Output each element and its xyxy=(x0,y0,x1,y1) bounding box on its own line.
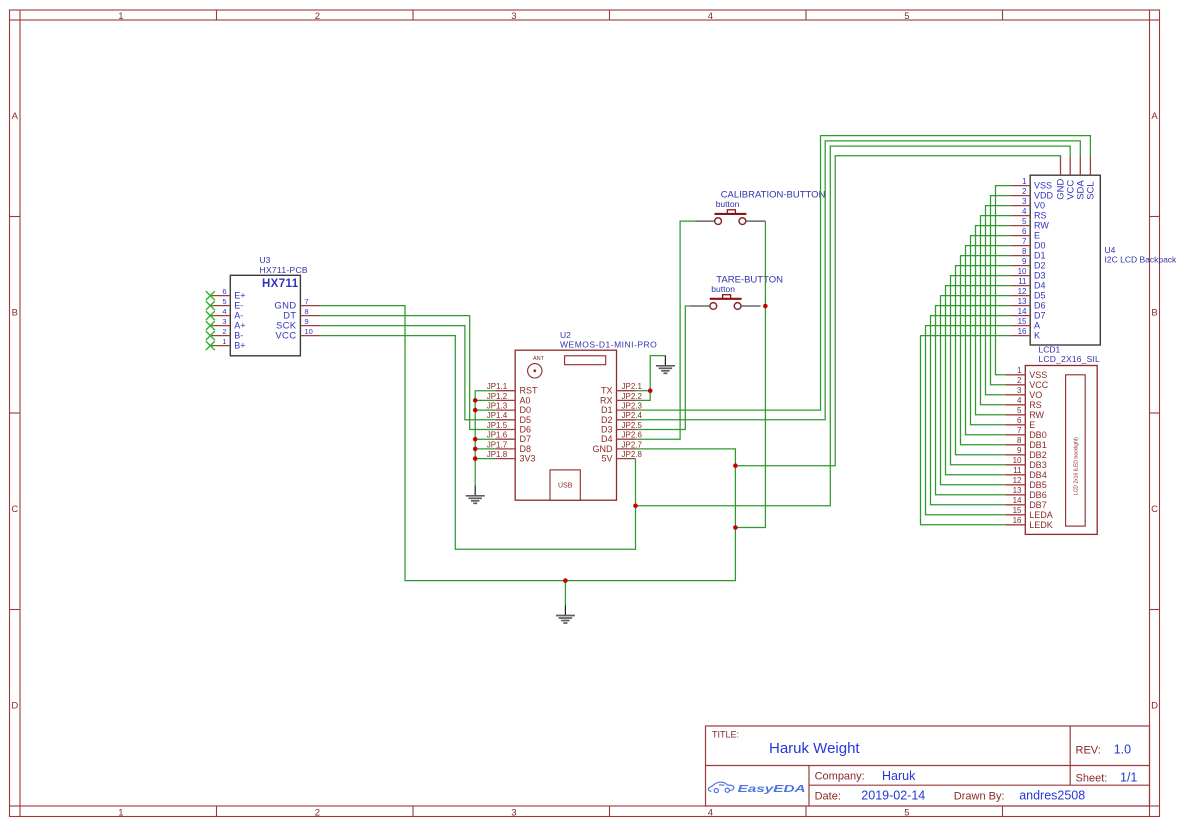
svg-text:RX: RX xyxy=(600,395,613,405)
svg-text:WEMOS-D1-MINI-PRO: WEMOS-D1-MINI-PRO xyxy=(560,340,657,350)
U4 pin 5 RW xyxy=(1010,217,1049,231)
svg-text:DB6: DB6 xyxy=(1029,490,1047,500)
junction dots on RST chain xyxy=(473,398,478,461)
svg-text:D0: D0 xyxy=(520,405,532,415)
svg-text:VO: VO xyxy=(1029,390,1042,400)
svg-text:D3: D3 xyxy=(601,425,613,435)
LCD1 pin 15 LEDA xyxy=(1005,506,1052,520)
svg-text:RW: RW xyxy=(1034,221,1049,231)
svg-text:D6: D6 xyxy=(520,425,532,435)
svg-text:6: 6 xyxy=(222,287,226,296)
svg-text:D0: D0 xyxy=(1034,241,1046,251)
svg-text:DB0: DB0 xyxy=(1029,430,1047,440)
svg-text:C: C xyxy=(11,504,18,515)
U4 pin 11 D4 xyxy=(1010,277,1045,291)
svg-text:andres2508: andres2508 xyxy=(1019,789,1085,803)
svg-text:LCD 2x16 (LED backlight): LCD 2x16 (LED backlight) xyxy=(1074,437,1080,495)
svg-text:JP1.4: JP1.4 xyxy=(487,411,508,420)
U4 pin 1 VSS xyxy=(1010,177,1052,191)
svg-text:DB1: DB1 xyxy=(1029,440,1047,450)
svg-text:HX711: HX711 xyxy=(262,278,299,290)
module U2 WEMOS-D1-MINI-PRO body xyxy=(515,350,616,500)
border ruler row letters right xyxy=(1151,111,1158,712)
svg-text:D5: D5 xyxy=(1034,291,1046,301)
svg-text:15: 15 xyxy=(1013,506,1022,515)
svg-text:1: 1 xyxy=(118,11,123,22)
no-connect flag on U3 pin 5 xyxy=(206,301,215,310)
svg-text:3: 3 xyxy=(1022,197,1027,206)
svg-text:9: 9 xyxy=(1022,257,1027,266)
LCD1 screen outline rectangle xyxy=(1066,375,1086,526)
LCD1 pin 2 VCC xyxy=(1005,376,1048,390)
easyeda logo xyxy=(708,782,805,795)
LCD1 pin 8 DB1 xyxy=(1005,436,1046,450)
svg-text:JP2.3: JP2.3 xyxy=(622,402,643,411)
U3 pin 7 GND xyxy=(274,297,320,312)
U4 pin 12 D5 xyxy=(1010,287,1045,301)
svg-text:JP1.7: JP1.7 xyxy=(487,440,508,449)
junction dot GND/buttons branch xyxy=(733,525,738,530)
svg-text:D4: D4 xyxy=(1034,281,1046,291)
LCD1 pin 11 DB4 xyxy=(1005,466,1046,480)
svg-text:USB: USB xyxy=(558,483,573,490)
svg-text:DB3: DB3 xyxy=(1029,460,1047,470)
U2 right pin JP2.6 D4 xyxy=(601,431,643,445)
svg-text:VDD: VDD xyxy=(1034,191,1054,201)
wire 3V3 to chain xyxy=(475,458,495,460)
svg-text:7: 7 xyxy=(1022,237,1027,246)
svg-text:10: 10 xyxy=(305,327,313,336)
U4 pin 6 E xyxy=(1010,227,1040,241)
svg-text:button: button xyxy=(716,199,740,209)
U2 left pin JP1.4 D5 xyxy=(487,411,531,425)
svg-text:12: 12 xyxy=(1013,476,1022,485)
U4 pin 13 D6 xyxy=(1010,297,1045,311)
IC U4 I2C LCD Backpack body xyxy=(1030,175,1100,345)
svg-text:A-: A- xyxy=(234,311,243,321)
svg-text:13: 13 xyxy=(1018,297,1027,306)
svg-text:A0: A0 xyxy=(520,395,531,405)
no-connect flag on U3 pin 2 xyxy=(206,331,215,340)
svg-text:14: 14 xyxy=(1018,307,1027,316)
svg-text:4: 4 xyxy=(222,307,226,316)
wire TX node to RX xyxy=(636,391,651,401)
U4 pin 14 D7 xyxy=(1010,307,1045,321)
svg-text:1: 1 xyxy=(222,337,226,346)
svg-text:3: 3 xyxy=(222,317,226,326)
svg-text:DB2: DB2 xyxy=(1029,450,1047,460)
U2 left pin JP1.3 D0 xyxy=(487,402,531,416)
U4 top pin VCC xyxy=(1065,156,1076,199)
wire TX node up to ground symbol xyxy=(650,356,665,391)
U2 right pin JP2.3 D1 xyxy=(601,402,643,416)
svg-text:LEDK: LEDK xyxy=(1029,520,1053,530)
svg-text:LCD_2X16_SIL: LCD_2X16_SIL xyxy=(1039,354,1101,364)
wire A0 to chain xyxy=(475,399,495,401)
U2 left pin JP1.5 D6 xyxy=(487,421,531,435)
display LCD1 LCD_2X16_SIL body xyxy=(1025,366,1097,535)
LCD1 pin 13 DB6 xyxy=(1005,486,1046,500)
U2 antenna symbol ANT xyxy=(528,356,545,378)
junction dot TARE right terminal xyxy=(763,304,768,309)
svg-text:TX: TX xyxy=(601,386,613,396)
svg-text:4: 4 xyxy=(708,807,713,818)
svg-text:JP2.8: JP2.8 xyxy=(622,450,643,459)
svg-text:RST: RST xyxy=(520,386,539,396)
LCD1 pin 1 VSS xyxy=(1005,366,1047,380)
svg-text:D3: D3 xyxy=(1034,271,1046,281)
IC U3 HX711-PCB body xyxy=(230,275,300,356)
border ruler column numbers bottom xyxy=(118,807,909,818)
svg-text:JP1.1: JP1.1 xyxy=(487,382,508,391)
svg-text:D: D xyxy=(11,701,18,712)
svg-text:8: 8 xyxy=(1017,436,1022,445)
svg-text:D7: D7 xyxy=(520,434,532,444)
U2 USB connector xyxy=(550,470,580,500)
svg-text:E-: E- xyxy=(234,301,243,311)
svg-text:D1: D1 xyxy=(1034,251,1046,261)
U2 antenna connector rectangle xyxy=(565,356,606,365)
wire D8 to chain xyxy=(475,448,495,450)
U3 pin 4 A- xyxy=(210,307,243,321)
svg-text:1: 1 xyxy=(1017,366,1022,375)
svg-text:JP1.5: JP1.5 xyxy=(487,421,508,430)
svg-text:5: 5 xyxy=(1017,406,1022,415)
svg-text:Haruk: Haruk xyxy=(882,769,916,783)
border ruler row letters left xyxy=(11,111,18,712)
ground symbol below RST chain xyxy=(466,486,485,504)
svg-text:D4: D4 xyxy=(601,434,613,444)
svg-text:VSS: VSS xyxy=(1034,181,1052,191)
svg-text:7: 7 xyxy=(1017,426,1022,435)
svg-text:14: 14 xyxy=(1013,496,1022,505)
no-connect flag on U3 pin 3 xyxy=(206,321,215,330)
U4 pin 10 D3 xyxy=(1010,267,1045,281)
wires U4 to LCD1 16-line staircase xyxy=(921,186,1011,525)
svg-text:3V3: 3V3 xyxy=(520,454,536,464)
svg-text:VSS: VSS xyxy=(1029,370,1047,380)
svg-text:K: K xyxy=(1034,331,1040,341)
U4 pin 7 D0 xyxy=(1010,237,1045,251)
svg-text:JP1.8: JP1.8 xyxy=(487,450,508,459)
svg-text:DB7: DB7 xyxy=(1029,500,1047,510)
LCD1 pin 16 LEDK xyxy=(1005,516,1052,530)
svg-text:D: D xyxy=(1151,701,1158,712)
svg-text:D1: D1 xyxy=(601,405,613,415)
junction dot TX node xyxy=(648,388,653,393)
LCD1 pin 12 DB5 xyxy=(1005,476,1046,490)
svg-text:JP1.6: JP1.6 xyxy=(487,431,508,440)
svg-text:Company:: Company: xyxy=(815,771,865,783)
junction dot 5V/VCC branch xyxy=(633,504,638,509)
U3 pin 6 E+ xyxy=(210,287,245,301)
U2 right pin JP2.7 GND xyxy=(593,440,643,454)
wire U2.D2 to U4.SDA xyxy=(636,141,1081,420)
svg-text:11: 11 xyxy=(1013,466,1022,475)
title block frame xyxy=(706,726,1150,806)
U2 right pin JP2.5 D3 xyxy=(601,421,643,435)
svg-text:C: C xyxy=(1151,504,1158,515)
svg-text:2: 2 xyxy=(1017,376,1022,385)
svg-text:RS: RS xyxy=(1034,211,1047,221)
svg-text:U3: U3 xyxy=(260,255,271,265)
U2 left pin JP1.8 3V3 xyxy=(487,450,536,464)
no-connect flag on U3 pin 1 xyxy=(206,341,215,350)
wire GND branch to U4.GND xyxy=(735,156,1060,466)
svg-text:VCC: VCC xyxy=(1029,380,1049,390)
wire U3.DT to U2.D6 xyxy=(320,316,495,430)
U4 top pin SDA xyxy=(1076,156,1087,199)
U4 pin 9 D2 xyxy=(1010,257,1045,271)
svg-text:I2C LCD Backpack: I2C LCD Backpack xyxy=(1105,255,1178,265)
svg-text:6: 6 xyxy=(1022,227,1027,236)
svg-text:B-: B- xyxy=(234,331,243,341)
svg-text:4: 4 xyxy=(1022,207,1027,216)
ground symbol at bottom bus xyxy=(556,605,575,623)
svg-text:HX711-PCB: HX711-PCB xyxy=(260,265,308,275)
svg-text:A+: A+ xyxy=(234,321,245,331)
svg-text:VCC: VCC xyxy=(275,331,296,342)
svg-text:2: 2 xyxy=(315,11,320,22)
U2 right pin JP2.2 RX xyxy=(600,392,643,406)
svg-text:RS: RS xyxy=(1029,400,1042,410)
junction dot GND/U4 branch xyxy=(733,463,738,468)
svg-text:A: A xyxy=(1151,111,1158,122)
U3 pin 1 B+ xyxy=(210,337,245,351)
svg-text:10: 10 xyxy=(1013,456,1022,465)
svg-text:D2: D2 xyxy=(1034,261,1046,271)
svg-text:1/1: 1/1 xyxy=(1120,771,1137,785)
svg-text:Date:: Date: xyxy=(815,790,841,802)
U4 pin 15 A xyxy=(1010,317,1040,331)
svg-text:16: 16 xyxy=(1013,516,1022,525)
svg-text:B: B xyxy=(12,308,18,319)
U4 pin 8 D1 xyxy=(1010,247,1045,261)
svg-text:Haruk Weight: Haruk Weight xyxy=(769,740,860,757)
U4 top pin GND xyxy=(1056,156,1067,199)
U4 top pin SCL xyxy=(1086,156,1097,199)
wire ground stub at bottom bus xyxy=(564,581,566,606)
svg-text:GND: GND xyxy=(593,444,614,454)
svg-text:A: A xyxy=(12,111,19,122)
svg-text:D7: D7 xyxy=(1034,311,1046,321)
svg-text:5: 5 xyxy=(1022,217,1027,226)
border ruler column numbers top xyxy=(118,11,909,22)
U2 right pin JP2.4 D2 xyxy=(601,411,643,425)
svg-text:DB4: DB4 xyxy=(1029,470,1047,480)
U2 left pin JP1.7 D8 xyxy=(487,440,531,454)
svg-text:1: 1 xyxy=(1022,177,1027,186)
U3 pin 3 A+ xyxy=(210,317,245,331)
svg-text:Sheet:: Sheet: xyxy=(1076,772,1108,784)
LCD1 pin 9 DB2 xyxy=(1005,446,1046,460)
U2 right pin JP2.1 TX xyxy=(601,382,643,396)
svg-text:12: 12 xyxy=(1018,287,1027,296)
LCD1 pin 6 E xyxy=(1005,416,1035,430)
U4 pin 3 V0 xyxy=(1010,197,1045,211)
wire VCC branch to U4.VCC xyxy=(636,146,1071,506)
svg-text:13: 13 xyxy=(1013,486,1022,495)
svg-text:JP2.4: JP2.4 xyxy=(622,411,643,420)
svg-text:JP2.1: JP2.1 xyxy=(622,382,643,391)
pushbutton CALIBRATION-BUTTON xyxy=(695,210,766,225)
no-connect flag on U3 pin 4 xyxy=(206,311,215,320)
svg-text:10: 10 xyxy=(1018,267,1027,276)
wire D7 to chain xyxy=(475,438,495,440)
wire U2.TX to ground xyxy=(636,390,651,392)
svg-text:U4: U4 xyxy=(1105,245,1116,255)
svg-text:JP2.6: JP2.6 xyxy=(622,431,643,440)
svg-text:E: E xyxy=(1029,420,1035,430)
LCD1 pin 7 DB0 xyxy=(1005,426,1046,440)
svg-text:D8: D8 xyxy=(520,444,532,454)
U3 pin 2 B- xyxy=(210,327,243,341)
wire U2.D1 to U4.SCL xyxy=(636,136,1091,411)
wire VCC net: U3.VCC to U2.5V xyxy=(320,336,635,550)
svg-text:V0: V0 xyxy=(1034,201,1045,211)
wire net GND: U3.GND to U2.GND bus xyxy=(320,306,735,581)
svg-text:9: 9 xyxy=(1017,446,1022,455)
LCD1 pin 10 DB3 xyxy=(1005,456,1046,470)
pushbutton TARE-BUTTON xyxy=(690,295,761,310)
U2 left pin JP1.1 RST xyxy=(487,382,538,396)
LCD1 pin 5 RW xyxy=(1005,406,1044,420)
svg-text:ANT: ANT xyxy=(533,356,545,362)
svg-text:8: 8 xyxy=(305,307,309,316)
svg-text:2: 2 xyxy=(1022,187,1027,196)
U2 left pin JP1.6 D7 xyxy=(487,431,531,445)
U3 pin 9 SCK xyxy=(276,317,320,332)
U2 left pin JP1.2 A0 xyxy=(487,392,531,406)
svg-text:LCD1: LCD1 xyxy=(1039,344,1061,354)
U3 pin 8 DT xyxy=(283,307,320,322)
svg-text:3: 3 xyxy=(511,807,516,818)
svg-text:Drawn By:: Drawn By: xyxy=(954,790,1005,802)
svg-text:SCL: SCL xyxy=(1086,181,1097,199)
svg-text:8: 8 xyxy=(1022,247,1027,256)
svg-text:E: E xyxy=(1034,231,1040,241)
svg-text:11: 11 xyxy=(1018,277,1027,286)
svg-text:A: A xyxy=(1034,321,1040,331)
svg-text:TITLE:: TITLE: xyxy=(712,730,739,740)
LCD1 pin 14 DB7 xyxy=(1005,496,1046,510)
wire U2.D3 to TARE-BUTTON xyxy=(636,306,691,430)
svg-text:D5: D5 xyxy=(520,415,532,425)
wire D0 to chain xyxy=(475,409,495,411)
wire U3.SCK to U2.D5 xyxy=(320,326,495,420)
svg-text:JP2.2: JP2.2 xyxy=(622,392,643,401)
svg-text:RW: RW xyxy=(1029,410,1044,420)
svg-text:JP1.3: JP1.3 xyxy=(487,402,508,411)
svg-text:2: 2 xyxy=(315,807,320,818)
svg-text:1: 1 xyxy=(118,807,123,818)
svg-text:B: B xyxy=(1151,308,1157,319)
svg-text:JP1.2: JP1.2 xyxy=(487,392,508,401)
U4 pin 16 K xyxy=(1010,327,1040,341)
svg-text:button: button xyxy=(711,284,735,294)
svg-text:2019-02-14: 2019-02-14 xyxy=(861,789,925,803)
svg-text:2: 2 xyxy=(222,327,226,336)
svg-text:4: 4 xyxy=(708,11,713,22)
no-connect flag on U3 pin 6 xyxy=(206,291,215,300)
svg-text:DB5: DB5 xyxy=(1029,480,1047,490)
svg-text:EasyEDA: EasyEDA xyxy=(738,784,806,795)
LCD1 pin 4 RS xyxy=(1005,396,1041,410)
svg-text:JP2.7: JP2.7 xyxy=(622,440,643,449)
wire U2.D4 to CALIBRATION-BUTTON xyxy=(636,221,695,439)
ground symbol near U2 TX xyxy=(656,356,675,374)
wire GND branch to buttons net xyxy=(735,221,765,527)
svg-text:6: 6 xyxy=(1017,416,1022,425)
svg-text:9: 9 xyxy=(305,317,309,326)
U4 pin 2 VDD xyxy=(1010,187,1053,201)
svg-text:15: 15 xyxy=(1018,317,1027,326)
svg-text:LEDA: LEDA xyxy=(1029,510,1053,520)
junction dot bottom ground xyxy=(563,578,568,583)
svg-text:3: 3 xyxy=(1017,386,1022,395)
svg-text:E+: E+ xyxy=(234,291,245,301)
U3 pin 5 E- xyxy=(210,297,243,311)
wire RST pulldown chain vertical xyxy=(475,391,495,486)
svg-text:16: 16 xyxy=(1018,327,1027,336)
svg-text:5: 5 xyxy=(904,11,909,22)
svg-text:4: 4 xyxy=(1017,396,1022,405)
svg-text:5: 5 xyxy=(222,297,226,306)
LCD1 pin 3 VO xyxy=(1005,386,1042,400)
svg-text:7: 7 xyxy=(305,297,309,306)
svg-text:1.0: 1.0 xyxy=(1114,743,1131,757)
svg-text:D2: D2 xyxy=(601,415,613,425)
svg-text:5: 5 xyxy=(904,807,909,818)
svg-text:D6: D6 xyxy=(1034,301,1046,311)
svg-text:B+: B+ xyxy=(234,341,245,351)
svg-text:3: 3 xyxy=(511,11,516,22)
svg-text:JP2.5: JP2.5 xyxy=(622,421,643,430)
svg-text:5V: 5V xyxy=(601,454,612,464)
U3 pin 10 VCC xyxy=(275,327,320,342)
svg-text:REV:: REV: xyxy=(1076,745,1101,757)
U4 pin 4 RS xyxy=(1010,207,1046,221)
U2 right pin JP2.8 5V xyxy=(601,450,642,464)
